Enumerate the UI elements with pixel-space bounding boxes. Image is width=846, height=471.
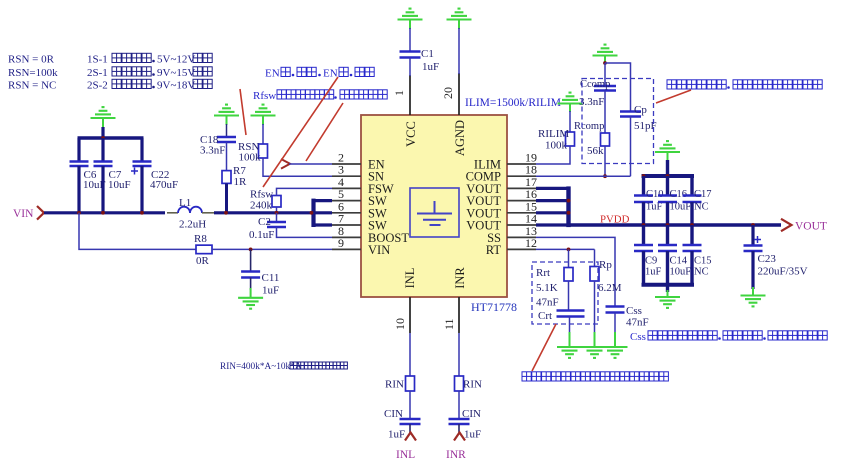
wire R8 to pin 9 VIN	[212, 248, 332, 250]
wire ground to C18	[226, 124, 228, 137]
wire Css to ground	[614, 313, 616, 335]
svg-text:1uF: 1uF	[645, 267, 662, 278]
svg-text:10uF: 10uF	[108, 179, 131, 191]
svg-text:470uF: 470uF	[150, 179, 178, 191]
junction C23/PVDD	[751, 223, 755, 227]
wire CIN to port (INL)	[409, 424, 411, 433]
capacitor C22 polarized	[133, 160, 152, 163]
resistor Rp	[590, 267, 599, 282]
wire PVDD rail	[569, 223, 782, 226]
svg-text:Rfsw: Rfsw	[253, 90, 276, 102]
wire pin 18 COMP	[536, 175, 631, 177]
wire C15 top lead	[690, 225, 693, 245]
wire bottom bar to ground	[666, 285, 669, 292]
wire top bus bar	[78, 136, 144, 140]
junction VIN rail / SW bracket	[310, 211, 314, 215]
capacitor C10	[634, 194, 653, 197]
wire C16 bottom lead	[666, 202, 669, 225]
svg-text:Crt: Crt	[538, 310, 552, 322]
ground RILIM	[558, 102, 583, 104]
svg-text:Cp: Cp	[634, 104, 647, 116]
wire ground to C1	[409, 28, 411, 52]
pin 2 stub	[332, 163, 361, 165]
capacitor C23 plus mark	[754, 239, 761, 241]
ground output top bank	[655, 151, 680, 153]
wire output bottom bar	[642, 283, 695, 287]
svg-text:1R: 1R	[234, 176, 248, 188]
wire Rp to ground	[594, 281, 596, 334]
wire ground to top bar	[666, 160, 669, 178]
wire VIN to R8 branch	[79, 213, 196, 250]
wire top to Ccomp	[604, 63, 606, 86]
svg-text:11: 11	[442, 318, 456, 330]
pin 16 stub	[507, 200, 536, 202]
capacitor C15	[683, 244, 702, 247]
leader line to RT box	[532, 324, 556, 371]
svg-text:C9: C9	[645, 256, 657, 267]
wire Rfsw to pin 4 FSW	[277, 188, 333, 195]
capacitor C23	[744, 244, 763, 247]
port INR arrow	[454, 433, 465, 441]
wire RT to Rp	[594, 249, 596, 266]
pin 15 stub	[507, 212, 536, 214]
wire SW pin5 segment	[314, 199, 333, 202]
capacitor Css	[606, 305, 625, 308]
junction Ccomp/Cp top	[603, 61, 607, 65]
svg-text:INR: INR	[446, 449, 466, 461]
wire Rfsw to VIN rail	[276, 207, 278, 213]
svg-text:EN: EN	[265, 68, 280, 80]
svg-text:VCC: VCC	[404, 121, 418, 147]
pin 3 stub	[332, 175, 361, 177]
pin 5 stub	[332, 200, 361, 202]
capacitor C16	[658, 194, 677, 197]
pin 20 stub	[458, 73, 460, 115]
svg-text:Ccomp: Ccomp	[580, 79, 610, 90]
svg-text:1uF: 1uF	[464, 429, 481, 441]
svg-text:NC: NC	[694, 202, 709, 213]
ground Rp	[582, 346, 607, 348]
svg-text:Rrt: Rrt	[536, 267, 550, 279]
wire C1 to pin 1 VCC	[409, 58, 411, 77]
op-amp U1 HT71778 IC body	[361, 115, 507, 297]
svg-text:C17: C17	[694, 189, 712, 200]
capacitor C22 plus mark	[131, 170, 138, 172]
wire Cp to COMP wire	[630, 117, 632, 177]
pin 10 stub	[409, 297, 411, 333]
pin 17 stub	[507, 187, 536, 189]
annotation release time	[522, 372, 531, 381]
capacitor C1	[400, 50, 421, 53]
svg-text:2S-1: 2S-1	[87, 67, 108, 79]
wire Rcomp to COMP line	[604, 146, 606, 176]
pin 18 stub	[507, 175, 536, 177]
leader line to EN wire	[306, 103, 343, 161]
junction RT/Rrt	[567, 248, 571, 252]
junction Rfsw/VIN	[275, 211, 279, 215]
capacitor C11	[241, 270, 260, 273]
wire VOUT pin14 segment	[536, 223, 569, 226]
svg-text:20: 20	[441, 87, 455, 99]
svg-text:C1: C1	[421, 48, 434, 60]
svg-text:RSN=100k: RSN=100k	[8, 67, 58, 79]
svg-text:PVDD: PVDD	[600, 214, 630, 226]
wire C17 top lead	[690, 176, 693, 196]
svg-text:C11: C11	[262, 272, 280, 284]
wire VOUT bracket bar	[566, 186, 570, 227]
port VIN arrow	[37, 206, 44, 220]
wire SW bracket vertical bar	[311, 199, 315, 227]
wire C22 bottom lead	[140, 166, 143, 213]
svg-text:2S-2: 2S-2	[87, 80, 108, 92]
svg-text:5V~12V: 5V~12V	[157, 54, 195, 66]
wire C7 bottom lead	[101, 166, 104, 213]
svg-text:ILIM=1500k/RILIM: ILIM=1500k/RILIM	[465, 97, 561, 109]
junction C22/VIN	[140, 211, 144, 215]
pin 6 stub	[332, 212, 361, 214]
svg-text:12: 12	[525, 236, 537, 250]
wire pin to RIN (INL)	[409, 333, 411, 376]
svg-text:240k: 240k	[250, 200, 273, 212]
ground output bottom bank	[655, 296, 680, 298]
wire SW pin7 segment	[314, 223, 333, 226]
wire C17 bottom lead	[690, 202, 693, 225]
svg-text:10: 10	[393, 318, 407, 330]
svg-text:Css: Css	[630, 331, 646, 343]
svg-text:47nF: 47nF	[626, 317, 649, 329]
junction R7/VIN	[224, 211, 228, 215]
svg-text:3.3nF: 3.3nF	[579, 96, 604, 108]
capacitor Cp	[620, 110, 641, 113]
wire C10 top lead	[642, 176, 645, 196]
resistor RSN	[259, 144, 268, 158]
wire C18 to R7	[226, 142, 228, 171]
inductor L1	[178, 207, 202, 213]
wire C9 bottom lead	[642, 251, 645, 285]
junction VOUT bracket b	[567, 211, 571, 215]
ground Crt	[557, 346, 582, 348]
wire VOUT pin16 segment	[536, 199, 569, 202]
svg-text:0.1uF: 0.1uF	[249, 229, 274, 241]
svg-text:100k: 100k	[239, 152, 262, 164]
wire top to Cp branch	[605, 63, 631, 112]
svg-text:2.2uH: 2.2uH	[179, 219, 206, 231]
junction C10/PVDD	[642, 223, 646, 227]
wire C11 to ground	[250, 278, 252, 291]
wire C14 top lead	[666, 225, 669, 245]
port INL arrow	[405, 433, 416, 441]
wire RSN to pin 3 SN	[263, 158, 332, 176]
svg-text:C2: C2	[258, 216, 271, 228]
junction VOUT bracket a	[567, 199, 571, 203]
annotation loop stability	[667, 80, 676, 89]
capacitor C2	[267, 221, 286, 224]
pin 4 stub	[332, 187, 361, 189]
pin 7 stub	[332, 224, 361, 226]
dashed RT box	[532, 262, 598, 324]
wire ground to RILIM	[569, 111, 571, 132]
wire pin to RIN (INR)	[458, 333, 460, 376]
ground C23	[741, 294, 766, 296]
svg-text:1uF: 1uF	[262, 285, 279, 297]
wire C15 bottom lead	[690, 251, 693, 285]
capacitor C17	[683, 194, 702, 197]
wire VOUT pin17 segment	[536, 187, 569, 190]
junction top bar C10	[642, 174, 646, 178]
junction top bus	[101, 136, 105, 140]
svg-text:RIN: RIN	[463, 379, 482, 391]
svg-text:INL: INL	[396, 449, 415, 461]
svg-text:Rcomp: Rcomp	[574, 121, 604, 132]
svg-text:6.2M: 6.2M	[598, 282, 622, 294]
wire ground to RSN	[262, 124, 264, 144]
svg-text:Css: Css	[626, 305, 642, 317]
svg-text:9: 9	[338, 236, 344, 250]
wire VOUT pin15 segment	[536, 211, 569, 214]
wire VIN rail right segment	[214, 211, 314, 214]
leader line to comp box	[656, 90, 691, 103]
wire CIN to port (INR)	[458, 424, 460, 433]
svg-text:RT: RT	[486, 243, 502, 257]
svg-text:L1: L1	[179, 197, 191, 209]
wire RIN to CIN (INL)	[409, 391, 411, 419]
ground C11	[238, 297, 263, 299]
svg-text:VOUT: VOUT	[795, 221, 827, 233]
svg-text:100k: 100k	[545, 140, 568, 152]
wire RIN to CIN (INR)	[458, 391, 460, 419]
resistor RIN (INL)	[406, 376, 415, 391]
wire C23 to ground	[751, 251, 754, 289]
wire RILIM to pin 19 ILIM	[536, 146, 570, 164]
svg-text:CIN: CIN	[384, 408, 403, 420]
wire ground to pin 20 AGND	[458, 28, 460, 74]
capacitor C14	[658, 244, 677, 247]
svg-text:INR: INR	[453, 267, 467, 289]
resistor R8	[196, 245, 212, 254]
resistor Rrt	[564, 268, 573, 282]
IC inner ground square	[410, 188, 459, 237]
ground input cap bank	[91, 117, 116, 119]
pin 13 stub	[507, 236, 536, 238]
wire SW pin6 segment	[314, 211, 333, 214]
ground Ccomp	[593, 54, 618, 56]
pin 19 stub	[507, 163, 536, 165]
capacitor C9	[634, 244, 653, 247]
capacitor Crt	[557, 309, 585, 312]
svg-text:0R: 0R	[196, 255, 210, 267]
svg-text:RILIM: RILIM	[538, 128, 569, 140]
wire R7 to VIN rail	[225, 183, 228, 212]
svg-text:5.1K: 5.1K	[536, 282, 558, 294]
pin 1 stub	[409, 75, 411, 115]
wire C23 top lead	[751, 225, 754, 246]
pin 12 stub	[507, 248, 536, 250]
ground C1	[398, 18, 423, 20]
wire L1 right lead	[202, 212, 214, 214]
svg-text:RIN: RIN	[385, 379, 404, 391]
ground Css	[603, 346, 628, 348]
pin 14 stub	[507, 224, 536, 226]
svg-text:RSN = NC: RSN = NC	[8, 80, 56, 92]
wire C6 bottom lead	[77, 166, 80, 213]
wire Rrt to Crt	[568, 281, 570, 311]
svg-text:1S-1: 1S-1	[87, 54, 108, 66]
wire VIN rail to C2	[276, 213, 278, 222]
svg-text:C15: C15	[694, 256, 712, 267]
wire ground stem to top bus	[101, 127, 104, 140]
pin 8 stub	[332, 236, 361, 238]
svg-text:9V~15V: 9V~15V	[157, 67, 195, 79]
wire L1 left lead	[167, 212, 178, 214]
svg-text:Rp: Rp	[599, 259, 612, 271]
svg-text:R8: R8	[194, 233, 207, 245]
ground RSN	[251, 114, 276, 116]
wire RT to Rrt	[568, 249, 570, 267]
wire C7 top lead	[101, 138, 104, 162]
resistor RIN (INR)	[455, 376, 464, 391]
wire output top bar	[642, 174, 695, 178]
ground C18	[214, 114, 239, 116]
junction Rcomp/COMP	[603, 174, 607, 178]
svg-text:3.3nF: 3.3nF	[200, 145, 225, 157]
svg-text:VIN: VIN	[368, 243, 390, 257]
junction R8/C11	[249, 248, 253, 252]
dashed compensation box	[582, 79, 654, 164]
port VOUT arrow	[781, 219, 792, 231]
svg-text:HT71778: HT71778	[471, 300, 517, 314]
resistor R7	[222, 171, 231, 184]
svg-text:47nF: 47nF	[536, 297, 559, 309]
leader line to Rfsw	[263, 77, 338, 187]
wire EN to pin 2	[289, 163, 332, 165]
wire C22 top lead	[140, 138, 143, 162]
svg-text:EN: EN	[323, 68, 338, 80]
wire Crt to ground	[569, 317, 571, 335]
wire C9 top lead	[642, 225, 645, 245]
node EN entry arrow	[281, 159, 290, 169]
pin 9 stub	[332, 248, 361, 250]
svg-text:C23: C23	[758, 253, 777, 265]
svg-text:VIN: VIN	[13, 208, 34, 220]
junction C17/PVDD	[690, 223, 694, 227]
resistor Rcomp	[601, 133, 610, 146]
capacitor C6	[70, 160, 89, 163]
capacitor Ccomp	[594, 85, 616, 88]
wire Ccomp to Rcomp	[604, 91, 606, 134]
wire pin 13 SS to Css	[536, 237, 615, 306]
resistor Rfsw	[272, 196, 281, 208]
wire C16 top lead	[666, 176, 669, 196]
wire pin 12 RT	[536, 248, 595, 250]
junction top bar stem	[666, 174, 670, 178]
ground AGND	[447, 18, 472, 20]
wire C6 top lead	[77, 138, 80, 162]
wire C10 bottom lead	[642, 202, 645, 225]
svg-text:220uF/35V: 220uF/35V	[758, 266, 808, 278]
svg-text:56k: 56k	[587, 145, 604, 157]
svg-text:10uF: 10uF	[670, 267, 692, 278]
svg-text:1uF: 1uF	[422, 61, 439, 73]
capacitor CIN (INR)	[449, 418, 470, 421]
capacitor C18	[217, 136, 236, 139]
svg-text:NC: NC	[694, 267, 709, 278]
capacitor C7	[94, 160, 113, 163]
svg-text:C14: C14	[670, 256, 688, 267]
svg-text:1uF: 1uF	[388, 429, 405, 441]
svg-text:RSN = 0R: RSN = 0R	[8, 54, 55, 66]
junction C6/VIN	[77, 211, 81, 215]
svg-text:AGND: AGND	[453, 120, 467, 156]
junction C7/VIN	[101, 211, 105, 215]
pin 11 stub	[458, 297, 460, 333]
resistor RILIM	[566, 132, 575, 146]
wire VIN rail left segment	[44, 211, 165, 214]
junction C16/PVDD	[666, 223, 670, 227]
svg-text:CIN: CIN	[462, 408, 481, 420]
capacitor CIN (INL)	[400, 418, 421, 421]
wire to C11	[250, 249, 252, 271]
svg-text:9V~18V: 9V~18V	[157, 80, 195, 92]
svg-text:INL: INL	[403, 268, 417, 289]
leader line to RSN	[240, 89, 246, 135]
svg-text:1: 1	[392, 90, 406, 96]
wire C2 to pin 8 BOOST	[277, 227, 333, 237]
wire C14 bottom lead	[666, 251, 669, 285]
